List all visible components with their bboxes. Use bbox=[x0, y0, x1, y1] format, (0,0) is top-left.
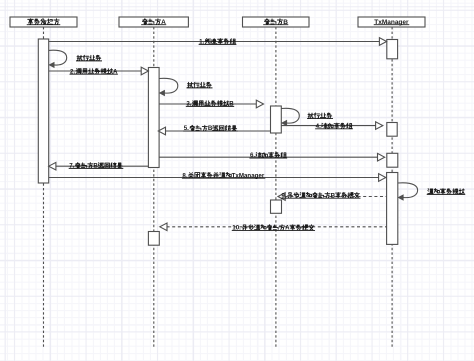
activation TxManager 3 bbox=[387, 153, 398, 167]
activation 参与方B async bbox=[271, 200, 282, 213]
activation 参与方A main bbox=[148, 68, 159, 168]
message 7.参与方B返回结果 bbox=[49, 162, 149, 170]
message 2.调用业务模块A bbox=[49, 67, 149, 75]
activation 参与方A async bbox=[148, 232, 159, 246]
activation TxManager 4 bbox=[387, 173, 398, 245]
activation TxManager 1 bbox=[387, 40, 398, 59]
self message 执行业务 on 参与方B bbox=[281, 108, 333, 125]
message 6.添加事务组 bbox=[159, 152, 385, 161]
lifeline TxManager bbox=[391, 27, 393, 347]
activation TxManager 2 bbox=[387, 123, 397, 137]
message 8.关闭事务并通知TxManager bbox=[49, 172, 386, 181]
header box 事务发起方 bbox=[10, 17, 77, 27]
self message 通知事务模块 on TxManager bbox=[398, 183, 465, 200]
message 9.异步通知参与方B事务提交 bbox=[278, 192, 387, 200]
header box 参与方B bbox=[243, 17, 310, 27]
message 4.添加事务组 bbox=[281, 122, 383, 130]
lifeline 参与方B bbox=[275, 27, 277, 347]
activation 参与方B main bbox=[271, 106, 282, 133]
message 3.调用业务模块B bbox=[159, 100, 263, 108]
lifeline 参与方A bbox=[153, 27, 155, 347]
self message 执行业务 on 事务发起方 bbox=[49, 50, 102, 67]
header box TxManager bbox=[358, 17, 425, 27]
activation 事务发起方 bbox=[38, 39, 48, 183]
lifeline 事务发起方 bbox=[43, 27, 45, 347]
message 5.参与方B返回结果 bbox=[158, 125, 270, 135]
self message 执行业务 on 参与方A bbox=[159, 78, 212, 95]
message 10.异步通知参与方A事务提交 bbox=[160, 223, 387, 232]
header box 参与方A bbox=[119, 17, 188, 27]
message 1.创建事务组 bbox=[49, 38, 387, 46]
